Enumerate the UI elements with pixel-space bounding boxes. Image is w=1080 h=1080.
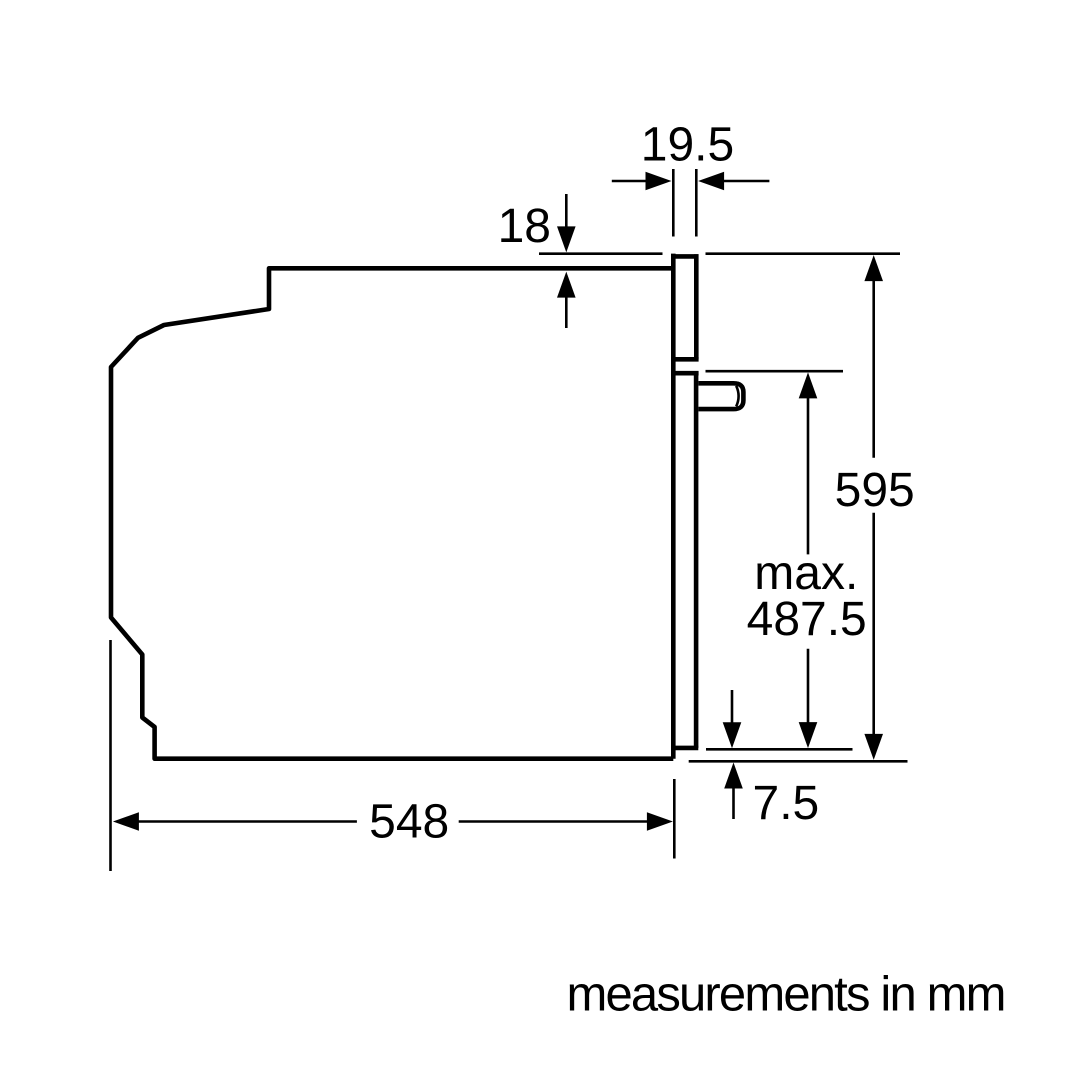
svg-text:7.5: 7.5 <box>753 777 820 830</box>
svg-text:18: 18 <box>498 200 551 253</box>
svg-text:548: 548 <box>369 796 449 849</box>
svg-text:measurements in mm: measurements in mm <box>567 967 1007 1021</box>
svg-text:487.5: 487.5 <box>747 593 867 646</box>
svg-text:595: 595 <box>835 464 915 517</box>
svg-text:19.5: 19.5 <box>641 119 734 172</box>
